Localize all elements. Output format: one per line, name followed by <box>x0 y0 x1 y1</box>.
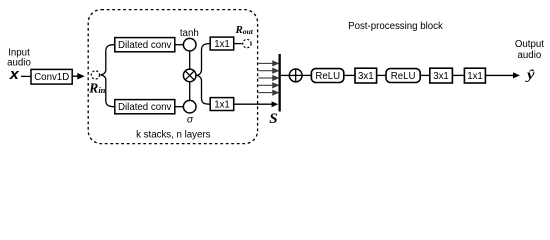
node sigma circle <box>183 100 196 113</box>
wire tanh to multiplier <box>189 51 191 69</box>
brace split from multiplier to 1x1 convs <box>197 44 210 105</box>
wire 1x1 to Rout <box>234 43 242 45</box>
svg-text:3x1: 3x1 <box>358 71 374 82</box>
svg-text:tanh: tanh <box>180 28 199 39</box>
wire skip 1x1 to sum bar (arrow) <box>234 103 272 105</box>
node Rin (dashed circle) <box>91 71 99 79</box>
block Dilated conv (bottom, gate sigma path) <box>115 100 175 114</box>
block 3x1 (second) <box>430 68 453 83</box>
wire dilated conv to sigma <box>176 106 184 108</box>
svg-text:3x1: 3x1 <box>433 71 449 82</box>
block 1x1 (bottom, skip out) <box>210 98 234 111</box>
skip arrows from other layers into sum bar <box>258 61 278 95</box>
wire 3x1 to 1x1 <box>452 74 464 76</box>
node S summation bar <box>279 54 281 112</box>
block 1x1 (output) <box>464 68 485 83</box>
svg-text:ŷ: ŷ <box>525 68 536 83</box>
block ReLU (first) <box>311 69 343 83</box>
svg-text:1x1: 1x1 <box>214 100 230 111</box>
svg-text:Output: Output <box>515 39 544 50</box>
svg-text:Post-processing block: Post-processing block <box>348 21 443 32</box>
wire 1x1 to output (arrow) <box>486 74 514 76</box>
wire sigma to multiplier <box>189 82 191 101</box>
svg-text:ReLU: ReLU <box>315 71 340 82</box>
block Conv1D <box>31 69 72 84</box>
wire dilated conv to tanh <box>176 44 184 46</box>
svg-text:ReLU: ReLU <box>391 71 416 82</box>
node Rout (dashed circle) <box>243 39 251 47</box>
wire Conv1D to Rin (arrow) <box>72 75 78 77</box>
svg-text:Dilated conv: Dilated conv <box>118 40 171 51</box>
svg-text:k stacks, n layers: k stacks, n layers <box>136 130 210 141</box>
block 1x1 (top, residual out) <box>210 37 234 50</box>
wire x to Conv1D <box>21 75 31 77</box>
dashed residual-block boundary (k stacks, n layers) <box>88 10 257 144</box>
wire adder to ReLU <box>302 74 311 76</box>
node multiplier (circle-times) <box>183 69 196 82</box>
svg-text:σ: σ <box>187 113 194 125</box>
svg-text:S: S <box>269 111 277 127</box>
block 3x1 (first) <box>355 68 377 83</box>
block Dilated conv (top, gate tanh path) <box>115 38 175 52</box>
svg-text:Conv1D: Conv1D <box>34 72 69 83</box>
node adder (circle-plus) <box>289 69 302 82</box>
svg-text:1x1: 1x1 <box>214 39 230 50</box>
wire sum bar to adder <box>281 74 289 76</box>
svg-text:x: x <box>9 66 20 83</box>
node tanh circle <box>183 38 196 51</box>
block ReLU (second) <box>386 69 420 83</box>
wire ReLU to 3x1 <box>420 74 429 76</box>
svg-text:1x1: 1x1 <box>467 71 483 82</box>
svg-text:Dilated conv: Dilated conv <box>118 102 171 113</box>
wire ReLU to 3x1 <box>344 74 354 76</box>
wire 3x1 to ReLU <box>377 74 386 76</box>
brace split from Rin to dilated convs <box>100 45 114 107</box>
svg-text:audio: audio <box>518 50 542 61</box>
